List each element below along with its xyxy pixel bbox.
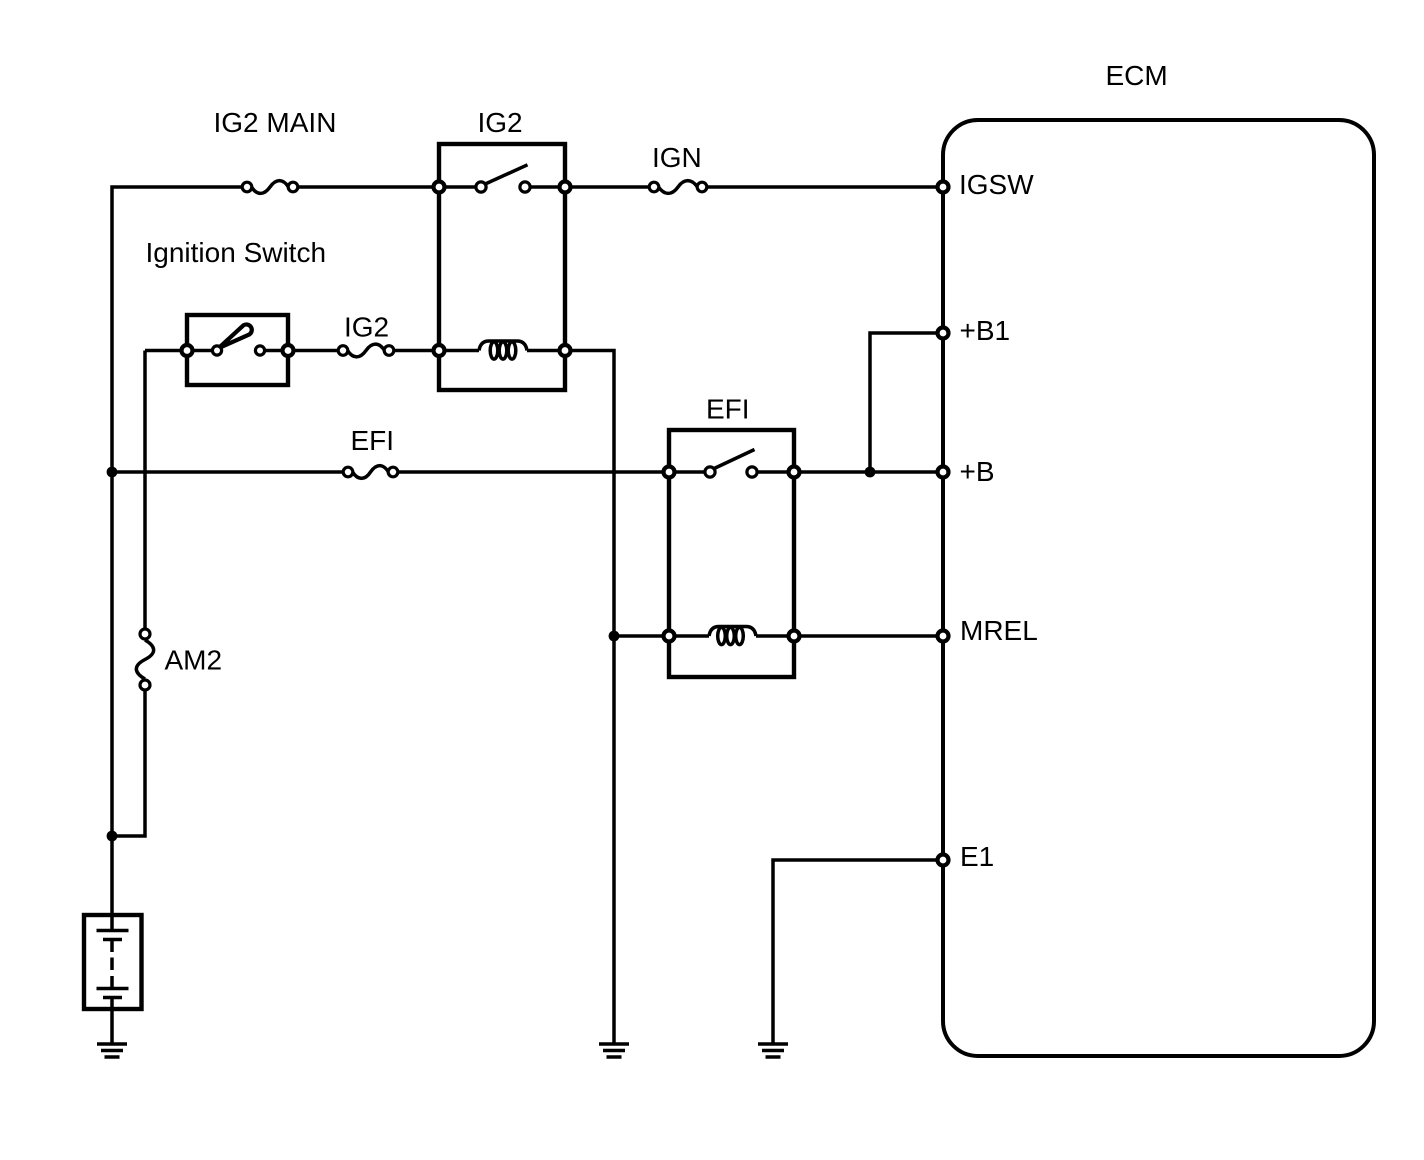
ignition switch contacts	[212, 346, 221, 355]
relay EFI terminals	[664, 467, 800, 642]
ECM pin +B	[938, 467, 949, 478]
fuse IG2 MAIN	[242, 181, 298, 194]
wire: top row, IG2 MAIN fuse to IG2 relay left terminal	[293, 185, 439, 189]
relay IG2 switch contacts	[476, 182, 486, 192]
svg-text:E1: E1	[960, 841, 994, 872]
junction node: battery rail / EFI row	[107, 467, 118, 478]
wire: ECM pin E1 to ground	[773, 860, 943, 1044]
battery box	[84, 915, 142, 1009]
wire: IG2 relay internal, right contact to right terminal	[525, 185, 565, 189]
wire: ignition switch internal right	[260, 349, 288, 353]
svg-text:EFI: EFI	[351, 425, 395, 456]
ECM pin IGSW	[938, 182, 949, 193]
fusible link AM2	[136, 629, 153, 690]
wire: IG2 relay coil lead right	[527, 349, 565, 353]
ECM pin +B1	[938, 328, 949, 339]
ignition switch key lever	[219, 324, 252, 348]
wire: ignition switch to IG2 fuse	[288, 349, 343, 353]
ECM pin MREL	[938, 631, 949, 642]
svg-text:IG2: IG2	[344, 312, 389, 343]
wire: EFI relay to ECM pin +B	[794, 470, 943, 474]
fuse EFI	[343, 466, 398, 479]
wire: MREL row, ground rail junction to EFI relay coil terminal	[614, 634, 669, 638]
ground: relay coil rail	[599, 1044, 629, 1057]
relay EFI box	[669, 430, 794, 677]
svg-text:+B1: +B1	[960, 315, 1011, 346]
wire: EFI relay coil lead left	[669, 634, 709, 638]
relay EFI switch blade	[712, 450, 755, 470]
svg-text:Ignition Switch: Ignition Switch	[146, 237, 327, 268]
svg-text:IG2: IG2	[478, 107, 523, 138]
ignition switch terminals	[182, 345, 294, 356]
junction node: +B / +B1 branch	[865, 467, 876, 478]
ignition switch box	[187, 315, 288, 385]
wire: EFI row from battery rail junction to EFI fuse	[112, 470, 348, 474]
wire: EFI relay internal, left terminal to contact	[669, 470, 710, 474]
wire: IG2 relay coil lead left	[439, 349, 479, 353]
svg-text:IGN: IGN	[652, 142, 702, 173]
svg-text:MREL: MREL	[960, 615, 1038, 646]
wire: EFI fuse to EFI relay left terminal	[393, 470, 669, 474]
wire: ignition switch row, corner to switch box	[145, 349, 187, 353]
junction node: ground rail / MREL row	[609, 631, 620, 642]
wire: IGN fuse to ECM pin IGSW	[702, 185, 943, 189]
wire: top row, IG2 relay to IGN fuse	[565, 185, 654, 189]
wire: IG2 relay internal, left terminal to switch contact	[439, 185, 481, 189]
wire: EFI relay internal, right contact to right terminal	[752, 470, 794, 474]
ground: E1	[758, 1044, 788, 1057]
svg-text:IG2 MAIN: IG2 MAIN	[214, 107, 337, 138]
battery cells	[97, 915, 129, 1044]
svg-text:ECM: ECM	[1106, 60, 1168, 91]
wire: battery+ rail, top row from left corner to fuse IG2 MAIN	[112, 187, 247, 913]
relay IG2 switch blade	[483, 165, 528, 185]
wire: +B1 branch from +B node up to ECM pin +B1	[870, 333, 943, 472]
relay IG2 terminals	[434, 182, 571, 357]
svg-text:+B: +B	[960, 456, 995, 487]
wire: ignition switch internal left	[187, 349, 217, 353]
relay IG2 box	[439, 144, 565, 390]
ECM box	[943, 120, 1374, 1056]
svg-text:IGSW: IGSW	[959, 169, 1034, 200]
svg-text:EFI: EFI	[706, 394, 750, 425]
wire: EFI relay coil to ECM pin MREL	[794, 634, 943, 638]
fuse IGN	[649, 181, 707, 194]
wire: IG2 relay coil to ground rail down past EFI row	[565, 351, 614, 1045]
relay IG2 coil	[479, 341, 527, 359]
ground: battery	[97, 1044, 127, 1057]
wire: ignition switch feed, down through AM2 to battery rail	[143, 351, 147, 635]
relay EFI coil	[709, 627, 756, 645]
fuse IG2	[338, 344, 394, 357]
wire: EFI relay coil lead right	[756, 634, 794, 638]
relay EFI switch contacts	[705, 467, 715, 477]
junction node: battery rail / ignition feed	[107, 831, 118, 842]
ECM pin E1	[938, 855, 949, 866]
svg-text:AM2: AM2	[165, 645, 223, 676]
wire: AM2 to battery rail junction	[112, 685, 145, 836]
wire: IG2 fuse to IG2 relay coil terminal	[389, 349, 439, 353]
